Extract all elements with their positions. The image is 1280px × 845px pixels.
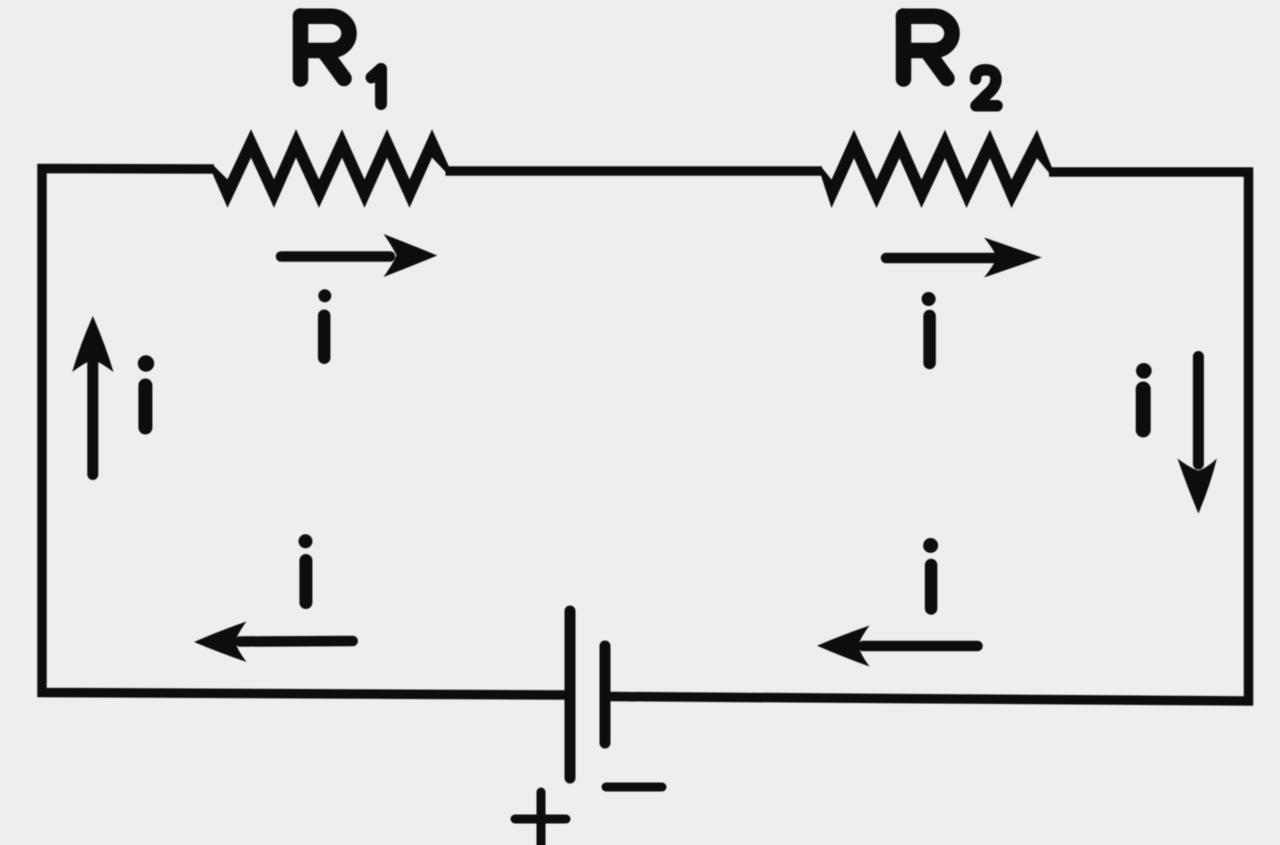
label R2 (letter R) bbox=[904, 16, 953, 79]
current arrow left (bottom left) bbox=[194, 622, 353, 663]
label i (left side) bbox=[138, 355, 154, 427]
label i (bottom right) bbox=[923, 538, 938, 609]
resistor R2 bbox=[821, 130, 1052, 208]
current arrow right (under R2) bbox=[886, 238, 1042, 278]
wire: top middle segment between R1 and R2 bbox=[446, 166, 823, 176]
label i (bottom left) bbox=[299, 534, 313, 602]
wire: top-right + right side + bottom-right segment bbox=[610, 172, 1249, 701]
label i (right side) bbox=[1136, 363, 1152, 430]
current arrow down (right side) bbox=[1178, 357, 1217, 514]
battery minus sign bbox=[606, 783, 662, 792]
battery plus sign bbox=[515, 792, 566, 845]
label R1 (subscript 1) bbox=[372, 69, 382, 104]
battery B1 short negative plate bbox=[600, 646, 611, 743]
label R2 (subscript 2) bbox=[976, 70, 998, 106]
current arrow right (under R1) bbox=[281, 234, 437, 277]
label i (under R2) bbox=[922, 292, 936, 363]
current arrow up (left side) bbox=[72, 316, 113, 475]
wire: bottom-left + left side + top-left segment bbox=[42, 169, 565, 696]
label R1 (letter R) bbox=[301, 16, 350, 79]
label i (under R1) bbox=[318, 289, 331, 357]
resistor R1 bbox=[213, 129, 450, 208]
current arrow left (bottom right) bbox=[817, 626, 978, 667]
battery B1 long positive plate bbox=[565, 611, 576, 778]
